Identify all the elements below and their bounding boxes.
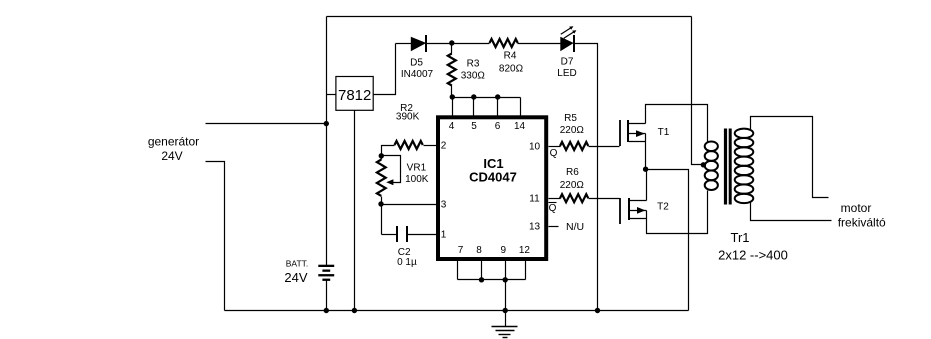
wire: pin 7 stub (457, 261, 459, 280)
wire: node B to ground rail (646, 170, 689, 311)
battery BATT 24V (318, 265, 334, 267)
regulator 7812 (336, 77, 373, 111)
svg-text:11: 11 (529, 194, 540, 205)
wire: R4 to LED anode (518, 43, 561, 45)
svg-text:D7: D7 (561, 57, 574, 68)
svg-text:VR1: VR1 (407, 163, 427, 174)
wire: T2 source to primary bottom (647, 191, 708, 234)
wire: LED cathode down to ground rail (575, 44, 598, 311)
node: 7812 ground junction (352, 308, 357, 313)
node: pin9 bus junction (503, 277, 508, 282)
wire: bottom ground rail (225, 310, 689, 312)
wire: pin 6 stub (497, 98, 499, 116)
wire: VR1 bottom to pin3/C2 node (381, 197, 383, 235)
wire: secondary top output (751, 117, 829, 198)
wire: T2 drain up to node B (646, 170, 648, 201)
svg-text:2x12 -->400: 2x12 -->400 (718, 248, 788, 263)
svg-text:T2: T2 (657, 202, 669, 213)
wire: +24V rail down to center tap (692, 17, 704, 165)
svg-text:2: 2 (441, 141, 447, 152)
wire: VR1 wiper loop (382, 156, 401, 183)
LED D7 (560, 37, 573, 52)
svg-text:LED: LED (557, 68, 576, 79)
wire: D5 cathode to node A (427, 43, 452, 45)
node: pin3 junction (378, 201, 383, 206)
node A: D5/R3/R4 junction (449, 40, 454, 45)
node: pin4 junction (450, 94, 455, 99)
wire: battery - to ground rail (326, 281, 328, 311)
svg-text:Tr1: Tr1 (730, 230, 749, 245)
svg-text:14: 14 (514, 121, 526, 132)
node: pin5 junction (471, 94, 476, 99)
svg-text:6: 6 (495, 121, 501, 132)
svg-text:7: 7 (458, 245, 464, 256)
node: pin6 junction (495, 94, 500, 99)
wire: 7812 output up to 12V line (374, 44, 396, 95)
op IC1 CD4047 body (438, 117, 546, 259)
svg-text:BATT.: BATT. (286, 259, 309, 269)
svg-text:220Ω: 220Ω (560, 180, 585, 191)
svg-text:IN4007: IN4007 (401, 69, 434, 80)
transistor T1 MOSFET (619, 120, 621, 146)
wire: T1 drain to primary top (646, 105, 708, 143)
wire: pin 8 stub (481, 261, 483, 280)
arrow: VR1 wiper arrowhead (386, 179, 393, 185)
svg-text:1: 1 (441, 230, 447, 241)
wire: pin 5 stub (473, 98, 475, 116)
node: battery ground junction (324, 308, 329, 313)
svg-text:9: 9 (501, 245, 507, 256)
resistor R4 820ohm (490, 39, 518, 47)
svg-text:R5: R5 (564, 113, 577, 124)
wire: IC ground bus (458, 279, 526, 281)
wire: 7812 input (327, 94, 336, 96)
svg-text:10: 10 (529, 142, 541, 153)
svg-text:0 1µ: 0 1µ (397, 257, 417, 268)
svg-text:13: 13 (529, 222, 541, 233)
node: generator + junction (324, 121, 329, 126)
wire: VDD rail above IC (452, 97, 521, 99)
ground symbol (505, 311, 507, 327)
node: pin8 bus junction (479, 277, 484, 282)
resistor R6 220ohm (549, 198, 561, 200)
resistor R2 390K (424, 145, 437, 147)
svg-text:T1: T1 (658, 127, 670, 138)
wire: pin 12 stub (525, 261, 527, 280)
wire: left supply vertical (battery +) (326, 17, 328, 266)
transformer Tr1 secondary winding (735, 129, 754, 203)
diode D5 IN4007 (411, 37, 427, 52)
wire: pin 4 stub (452, 98, 454, 116)
wire: pin 3 lead (382, 204, 437, 206)
svg-text:generátor: generátor (148, 135, 199, 149)
wire: 12V line to D5 anode (396, 43, 412, 45)
wire: bus down to ground rail (505, 280, 507, 311)
svg-text:7812: 7812 (338, 87, 371, 104)
wire: pin 9 stub (505, 261, 507, 280)
svg-text:100K: 100K (405, 174, 429, 185)
wire: generator + lead (206, 123, 327, 125)
svg-text:R3: R3 (467, 59, 480, 70)
wire: pin 13 stub (549, 226, 559, 228)
svg-text:CD4047: CD4047 (469, 170, 517, 185)
transistor T2 MOSFET (619, 198, 621, 224)
wire: 7812 ground down to rail (354, 111, 356, 311)
svg-text:24V: 24V (284, 270, 307, 285)
svg-text:8: 8 (476, 245, 482, 256)
svg-text:24V: 24V (161, 149, 182, 163)
node B: T1 source / T2 drain / ground junction (643, 167, 648, 172)
capacitor C2 0.1u (382, 234, 397, 236)
svg-text:390K: 390K (396, 112, 420, 123)
node: LED line / ground rail junction (595, 308, 600, 313)
svg-text:N/U: N/U (566, 221, 584, 233)
node: ground rail / IC bus junction (503, 308, 508, 313)
wire: R2 left corner down (382, 146, 395, 160)
svg-text:4: 4 (449, 121, 455, 132)
node: R2/VR1/wiper junction (379, 153, 384, 158)
wire: generator - lead down to ground rail (206, 162, 225, 311)
svg-text:frekiváltó: frekiváltó (838, 215, 886, 229)
node: transformer center tap (701, 162, 706, 167)
svg-text:820Ω: 820Ω (499, 64, 524, 75)
svg-text:Q: Q (550, 148, 558, 159)
svg-text:Q: Q (549, 203, 557, 214)
potentiometer VR1 100K (377, 160, 386, 196)
svg-text:3: 3 (441, 199, 447, 210)
svg-text:motor: motor (841, 201, 872, 215)
svg-text:12: 12 (519, 245, 531, 256)
resistor R3 330ohm (451, 44, 453, 54)
svg-text:D5: D5 (410, 58, 423, 69)
wire: pin 14 stub (520, 98, 522, 116)
resistor R5 220ohm (549, 146, 561, 148)
transformer Tr1 core (724, 129, 727, 205)
svg-text:330Ω: 330Ω (461, 71, 486, 82)
svg-text:R4: R4 (504, 51, 517, 62)
wire: node A to R4 (452, 43, 490, 45)
wire: T1 source down to node B (645, 134, 647, 170)
svg-text:5: 5 (471, 121, 477, 132)
wire: secondary bottom output (751, 202, 832, 221)
wire: top +24V rail (327, 16, 692, 18)
svg-text:R6: R6 (566, 167, 579, 178)
svg-text:220Ω: 220Ω (560, 125, 585, 136)
transformer Tr1 primary winding (705, 141, 718, 190)
